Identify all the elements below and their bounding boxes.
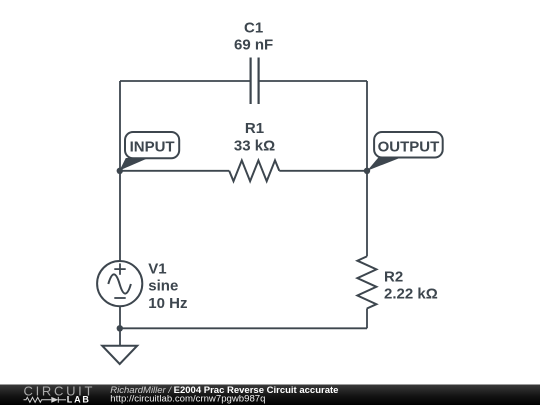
svg-text:V1: V1 bbox=[148, 261, 166, 278]
footer bar bbox=[0, 385, 540, 405]
svg-text:LAB: LAB bbox=[67, 395, 91, 405]
node INPUT junction dot bbox=[117, 168, 123, 174]
resistor R2 bbox=[357, 256, 376, 308]
ground bbox=[102, 346, 137, 364]
svg-text:10 Hz: 10 Hz bbox=[148, 295, 187, 312]
node OUTPUT junction dot bbox=[364, 168, 370, 174]
wire: R2 down to bottom rail bbox=[366, 309, 368, 329]
resistor R1 bbox=[229, 160, 279, 181]
voltage source V1 bbox=[97, 261, 142, 306]
svg-text:C1: C1 bbox=[244, 20, 263, 37]
wire: right rail, top rail down to OUTPUT node bbox=[366, 81, 368, 171]
wire: top rail right of C1 bbox=[259, 80, 367, 82]
wire: INPUT node to R1 bbox=[120, 170, 229, 172]
node flag INPUT bbox=[120, 132, 180, 171]
capacitor C1 bbox=[251, 58, 259, 105]
svg-text:2.22 kΩ: 2.22 kΩ bbox=[384, 285, 438, 302]
svg-text:R1: R1 bbox=[245, 120, 264, 137]
node flag OUTPUT bbox=[367, 132, 443, 171]
wire: bottom rail bbox=[120, 327, 367, 329]
wire: OUTPUT node down to R2 bbox=[366, 171, 368, 257]
svg-text:R2: R2 bbox=[384, 269, 403, 286]
wire: left rail, top rail down to V1 bbox=[119, 81, 121, 262]
svg-text:http://circuitlab.com/crnw7pgw: http://circuitlab.com/crnw7pgwb987q bbox=[110, 393, 265, 404]
node junction dot (V1- / bottom rail / ground) bbox=[117, 325, 123, 331]
svg-text:OUTPUT: OUTPUT bbox=[378, 138, 440, 155]
wire: top rail left of C1 bbox=[120, 80, 251, 82]
svg-text:sine: sine bbox=[148, 278, 178, 295]
wire: R1 to OUTPUT node bbox=[279, 170, 367, 172]
svg-text:33 kΩ: 33 kΩ bbox=[234, 138, 275, 155]
wire: V1 down to ground junction bbox=[119, 306, 121, 346]
svg-text:69 nF: 69 nF bbox=[234, 36, 273, 53]
CircuitLab logo: resistor-diode glyph bbox=[24, 397, 67, 403]
svg-text:INPUT: INPUT bbox=[130, 139, 175, 156]
